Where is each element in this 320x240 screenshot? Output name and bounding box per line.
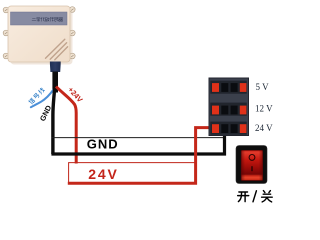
power terminal block body — [209, 78, 249, 136]
terminal row 12V strip — [210, 103, 247, 116]
char 信 — [28, 98, 35, 105]
rocker I mark — [251, 166, 253, 171]
char 二 — [32, 18, 36, 20]
sensor title bar — [11, 12, 68, 25]
sensor cable (thick) — [52, 72, 58, 93]
terminal row 5V strip — [210, 81, 247, 94]
svg-text:+24V: +24V — [66, 85, 84, 104]
char 传 — [50, 17, 54, 21]
terminal row 24V contacts — [212, 124, 246, 133]
GND bus thin top line — [52, 137, 225, 139]
terminal row 5V contacts — [212, 83, 246, 92]
label 开 / 关 (on/off) — [238, 191, 273, 202]
char 化 — [41, 17, 45, 21]
svg-text:5 V: 5 V — [256, 82, 270, 92]
svg-text:24 V: 24 V — [255, 123, 273, 133]
wire GND from sensor (vertical) — [53, 88, 55, 154]
slash — [253, 191, 256, 202]
screw mid-right — [70, 30, 76, 36]
char 开 — [238, 192, 249, 202]
terminal row 12V contacts — [212, 106, 246, 115]
rocker switch bezel — [236, 146, 267, 184]
char 器 — [59, 17, 63, 21]
24V bus wire (horizontal + riser to terminal) — [68, 128, 214, 184]
sensor enclosure shadow — [11, 9, 73, 65]
wire +24V from sensor — [56, 87, 76, 164]
blue signal wire — [31, 90, 54, 108]
char 碳 — [45, 17, 49, 21]
screw bottom-right — [70, 53, 76, 59]
cable gland — [50, 62, 61, 73]
char 氧 — [36, 17, 40, 21]
GND bus wire (horizontal + riser to terminal) — [51, 135, 224, 155]
vent lines — [46, 39, 68, 60]
rocker switch red rocker — [241, 150, 263, 180]
screw top-right — [70, 7, 76, 13]
screw top-left — [3, 7, 9, 13]
char 号 — [33, 93, 39, 99]
svg-text:24V: 24V — [88, 166, 118, 182]
char 关 — [262, 191, 273, 202]
screw mid-left — [3, 30, 9, 36]
screw bottom-left — [3, 53, 9, 59]
char 感 — [54, 18, 58, 22]
svg-text:GND: GND — [87, 137, 119, 152]
terminal row 24V strip — [210, 122, 247, 135]
sensor title text 二氧化碳传感器 — [32, 17, 63, 21]
sensor enclosure body — [8, 6, 70, 62]
24V bus thin outline (top + left) — [69, 163, 196, 183]
rocker O mark — [249, 155, 255, 161]
char 线 — [38, 87, 45, 94]
label 信号线 (signal wire) — [28, 87, 44, 104]
rocker side shading — [241, 150, 263, 180]
svg-text:12 V: 12 V — [255, 104, 273, 114]
